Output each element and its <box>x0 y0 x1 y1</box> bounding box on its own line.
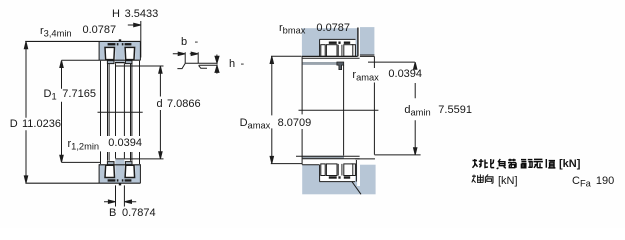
silhouette vertical lines between sections <box>100 61 102 164</box>
cage top bits <box>108 39 132 45</box>
dimension damin extension bottom <box>375 154 421 156</box>
dimension Damax extension top <box>271 55 301 57</box>
mini center tongue dark strips (bottom) <box>338 164 342 176</box>
value 7.7165 <box>62 89 96 100</box>
char 值 <box>546 159 555 168</box>
vertical shaft line <box>373 56 375 154</box>
value 0.0787 right <box>316 23 350 34</box>
text label rbmax <box>279 23 305 37</box>
housing+shaft block bottom (blue) <box>302 165 375 195</box>
bottom section right leg (blue) <box>135 164 140 183</box>
char 荷 <box>508 159 516 169</box>
text label damin <box>404 105 430 119</box>
mini roller left (bottom) <box>326 164 337 176</box>
text label D <box>10 119 18 130</box>
dimension H extension line (vertical, right of section) <box>140 21 142 58</box>
bearing window top (white) <box>320 39 356 56</box>
dimension D1 line with arrows <box>61 64 63 160</box>
char 轴 <box>472 174 484 183</box>
mini washer end left (bottom) <box>321 164 325 176</box>
dimension D extension bottom (merged with section bottom edge) <box>25 182 140 184</box>
heading bracket part [kN] bold <box>559 159 580 170</box>
shaft bottom top face <box>355 158 375 160</box>
top section bottom line across <box>99 59 140 61</box>
roller right (bottom section) <box>125 165 135 177</box>
text label Damax <box>240 118 271 132</box>
value 7.0866 <box>167 99 201 110</box>
dimension B extension lines <box>116 185 125 206</box>
dimension D extension top (merged with section top edge) <box>25 40 140 42</box>
value 11.0236 <box>22 119 61 130</box>
text label B <box>109 208 116 219</box>
mini washer end right <box>352 45 355 57</box>
value 0.0394 right <box>388 69 422 80</box>
value 8.0709 <box>278 118 312 129</box>
bottom section center tongue (blue) <box>115 160 124 184</box>
value 7.5591 <box>438 105 472 116</box>
washer plate top (below housing) <box>303 57 360 59</box>
detail right hook <box>199 65 207 68</box>
dimension H arrow <box>128 24 137 26</box>
window bottom right edge <box>355 160 357 182</box>
char 负 <box>497 159 506 169</box>
diagonal break line bottom right <box>352 181 361 194</box>
char 向 <box>485 174 493 183</box>
value 0.0787 left <box>83 25 117 36</box>
centerline left drawing <box>98 111 143 113</box>
roller left (bottom section) <box>105 165 115 177</box>
bottom section left leg (blue) <box>99 164 104 183</box>
shaft top bottom face <box>360 55 375 56</box>
dimension damin extension top <box>368 61 415 63</box>
detail h arrows <box>216 55 218 74</box>
heading: 对比负荷额定值 (bold) <box>473 159 556 169</box>
cage bottom bits <box>108 179 132 185</box>
small tab top center <box>119 39 121 41</box>
housing block top (blue) <box>302 28 357 56</box>
cage piece over left roller (bottom) <box>107 162 114 165</box>
mini washer end right (bottom) <box>352 164 355 176</box>
top section center tongue (blue) <box>115 41 124 62</box>
top section right leg (blue) <box>135 41 140 60</box>
cage piece under right roller <box>125 61 132 64</box>
mini roller right (top) <box>344 45 353 57</box>
grey washer strip bottom <box>303 156 344 159</box>
detail b arrows and extension lines <box>173 53 194 55</box>
washer plate bottom lines <box>296 156 360 158</box>
text label h <box>229 59 235 70</box>
dimension D1 extension bottom <box>62 161 102 163</box>
row2: 轴向 <box>472 174 493 183</box>
mini washer end left <box>321 45 325 57</box>
char 额 <box>521 160 533 168</box>
vertical washer bore line <box>343 65 345 155</box>
row2 bracket part [kN] <box>498 176 518 187</box>
mini roller left (top) <box>326 45 337 57</box>
text label D1 <box>44 89 57 103</box>
text label d <box>157 99 163 110</box>
window bottom edge <box>320 165 356 182</box>
text CFa 190 <box>572 176 591 190</box>
dimension Damax line with arrows <box>271 59 273 160</box>
cage piece under left roller <box>107 61 114 64</box>
mini center tongue dark strips (top) <box>338 45 342 57</box>
dimension D1 extension top <box>62 59 100 61</box>
housing bottom top face <box>302 164 319 166</box>
detail plate profile upper line <box>185 62 217 64</box>
char 定 <box>534 159 543 168</box>
dimension Damax extension bottom <box>271 163 303 165</box>
cage piece over right roller (bottom) <box>125 162 132 165</box>
mini roller right (bottom) <box>344 164 353 176</box>
bottom section washer bottom bar (blue) <box>99 178 140 183</box>
char 对 <box>473 159 484 168</box>
white gap column bottom block <box>357 160 360 186</box>
roller right (top section) <box>125 47 135 59</box>
text label r1,2min <box>68 139 100 153</box>
bottom section side outlines <box>99 164 140 183</box>
detail left hook <box>177 63 185 68</box>
bottom section top line across <box>99 164 140 166</box>
shaft block top right (blue) <box>360 27 374 55</box>
value 0.0394 (between sections, white backing) <box>104 137 143 152</box>
bearing window bottom (white) <box>320 160 356 182</box>
tongue bottom cap (top section) <box>115 62 125 64</box>
centerline right drawing <box>299 109 379 111</box>
dimension d extension top <box>115 65 163 67</box>
mini cage top bits <box>329 42 350 44</box>
dimension D line with arrows <box>25 45 27 181</box>
top section left leg (blue) <box>99 41 104 60</box>
dimension d line with arrows <box>159 69 161 156</box>
char 比 <box>485 159 494 168</box>
detail plate profile lower line <box>199 64 218 66</box>
dimension damin line with arrows <box>414 65 416 152</box>
text label r3,4min <box>40 26 72 40</box>
roller left (top section) <box>105 47 115 59</box>
top section side outlines <box>99 42 140 61</box>
shaft left edge top <box>357 28 359 57</box>
top section washer top bar (blue) <box>99 41 140 46</box>
window top edge <box>320 39 356 56</box>
text label ramax <box>352 70 378 84</box>
grey washer strip top <box>303 62 344 65</box>
T tab below top washer <box>337 62 344 70</box>
dimension d extension bottom <box>115 158 163 160</box>
small tab bottom center <box>119 183 121 185</box>
value 0.7874 <box>122 208 156 219</box>
mini cage bottom bits <box>329 176 350 178</box>
housing top bottom face <box>302 55 358 57</box>
dimension B arrows <box>104 201 136 203</box>
vertical housing bore line <box>301 56 303 164</box>
text label H <box>112 9 120 20</box>
text label b <box>181 37 187 48</box>
